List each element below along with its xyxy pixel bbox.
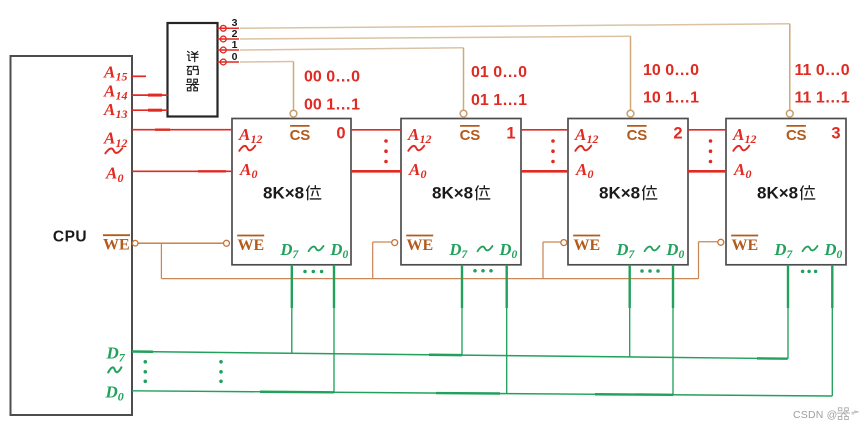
svg-text:01 1…1: 01 1…1	[471, 92, 527, 109]
svg-text:CS: CS	[460, 127, 481, 144]
svg-text:8K×8: 8K×8	[757, 184, 798, 203]
svg-text:D: D	[616, 240, 629, 259]
svg-text:0: 0	[336, 125, 345, 143]
svg-text:A: A	[103, 82, 115, 101]
svg-text:10 0…0: 10 0…0	[643, 62, 699, 79]
svg-text:A: A	[238, 125, 250, 144]
svg-text:11 1…1: 11 1…1	[795, 89, 850, 106]
svg-text:D: D	[280, 240, 293, 259]
svg-text:D: D	[499, 240, 512, 259]
svg-text:A: A	[575, 160, 587, 179]
svg-text:8K×8: 8K×8	[432, 184, 473, 203]
svg-text:14: 14	[116, 89, 128, 103]
svg-text:0: 0	[512, 249, 518, 261]
svg-text:3: 3	[831, 125, 840, 143]
svg-text:WE: WE	[574, 237, 601, 254]
svg-text:0: 0	[118, 171, 124, 185]
svg-text:0: 0	[252, 167, 258, 181]
svg-text:A: A	[239, 160, 251, 179]
svg-text:A: A	[103, 63, 115, 82]
svg-text:0: 0	[421, 167, 427, 181]
svg-text:0: 0	[746, 167, 752, 181]
svg-text:A: A	[733, 160, 745, 179]
svg-text:WE: WE	[238, 237, 265, 254]
svg-text:D: D	[666, 240, 679, 259]
svg-text:0: 0	[118, 389, 124, 403]
svg-text:0: 0	[679, 249, 685, 261]
svg-text:A: A	[103, 100, 115, 119]
svg-text:A: A	[407, 125, 419, 144]
svg-text:CSDN @: CSDN @	[793, 409, 838, 421]
svg-text:CS: CS	[290, 127, 311, 144]
svg-text:12: 12	[587, 132, 599, 146]
svg-text:11 0…0: 11 0…0	[795, 62, 850, 79]
svg-text:CS: CS	[627, 127, 648, 144]
svg-text:8K×8: 8K×8	[263, 184, 304, 203]
svg-text:WE: WE	[103, 236, 130, 253]
svg-text:A: A	[408, 160, 420, 179]
svg-text:D: D	[774, 240, 787, 259]
svg-text:A: A	[105, 164, 117, 183]
svg-text:12: 12	[745, 132, 757, 146]
svg-text:01 0…0: 01 0…0	[471, 64, 527, 81]
svg-text:12: 12	[251, 132, 263, 146]
svg-text:WE: WE	[732, 237, 759, 254]
svg-text:CS: CS	[786, 127, 807, 144]
svg-text:D: D	[330, 240, 343, 259]
svg-text:1: 1	[506, 125, 515, 143]
svg-text:7: 7	[119, 351, 126, 365]
svg-text:WE: WE	[407, 237, 434, 254]
svg-text:2: 2	[673, 125, 682, 143]
svg-text:13: 13	[116, 107, 128, 121]
svg-text:A: A	[103, 129, 115, 148]
svg-text:D: D	[106, 344, 119, 363]
svg-text:CPU: CPU	[53, 229, 87, 246]
svg-text:15: 15	[116, 70, 128, 84]
svg-text:D: D	[824, 240, 837, 259]
svg-text:D: D	[105, 382, 118, 401]
svg-text:1: 1	[232, 39, 238, 51]
svg-text:0: 0	[232, 51, 238, 63]
svg-text:00 1…1: 00 1…1	[304, 96, 360, 113]
svg-text:0: 0	[588, 167, 594, 181]
svg-text:8K×8: 8K×8	[599, 184, 640, 203]
svg-text:0: 0	[343, 249, 349, 261]
svg-text:00 0…0: 00 0…0	[304, 68, 360, 85]
svg-text:10 1…1: 10 1…1	[643, 89, 699, 106]
svg-text:12: 12	[420, 132, 432, 146]
svg-text:A: A	[574, 125, 586, 144]
svg-text:0: 0	[837, 249, 843, 261]
svg-text:D: D	[449, 240, 462, 259]
svg-text:A: A	[732, 125, 744, 144]
